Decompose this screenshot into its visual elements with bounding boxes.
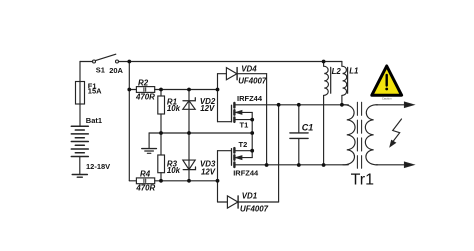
wire battery column top — [79, 62, 81, 127]
svg-text:12V: 12V — [201, 168, 216, 177]
junction gate2 rail / T2 gate column — [216, 179, 220, 183]
junction T2 drain rail / L2 bottom — [322, 163, 326, 167]
junction GND rail / R1-R3 column — [159, 131, 163, 135]
transformer core — [356, 102, 358, 168]
junction T1 source — [250, 118, 254, 122]
junction +V column / R2 left — [127, 88, 131, 92]
inductor L2 — [323, 62, 325, 67]
fuse F1 — [76, 82, 85, 105]
transformer Tr1 secondary — [365, 105, 377, 165]
junction T2 source — [250, 149, 254, 153]
svg-text:C1: C1 — [302, 123, 314, 133]
inductor L1 — [341, 62, 343, 67]
junction gate1 rail / VD2 cathode — [187, 88, 191, 92]
wire top rail — [119, 61, 342, 63]
transistor T1 — [231, 105, 233, 122]
junction T1 drain rail / VD1 cathode column — [277, 103, 281, 107]
junction gate1 rail / R1 top — [159, 88, 163, 92]
wire gate1 rail left — [129, 89, 136, 91]
resistor R2 — [136, 87, 154, 93]
warning triangle — [372, 66, 402, 100]
svg-text:Tr1: Tr1 — [351, 172, 375, 189]
svg-text:L2: L2 — [332, 67, 342, 76]
svg-text:Bat1: Bat1 — [86, 116, 102, 125]
zener VD3 — [188, 133, 190, 181]
switch S1 — [93, 60, 96, 63]
T1 drain rail — [236, 104, 349, 106]
node column T2 gate/VD1 — [217, 151, 219, 202]
capacitor C1 — [298, 105, 300, 132]
diode VD4 — [218, 73, 227, 75]
wire battery to ground — [79, 157, 81, 175]
junction +V rail / S1 branch — [127, 60, 131, 64]
gate2 rail — [129, 180, 136, 182]
svg-text:UF4007: UF4007 — [238, 77, 267, 86]
wire T1 gate stub — [218, 121, 232, 123]
junction GND rail / VD2-VD3 column — [187, 131, 191, 135]
transformer Tr1 primary — [343, 105, 355, 165]
svg-text:R2: R2 — [138, 79, 149, 88]
svg-text:Caution: Caution — [382, 96, 392, 100]
svg-text:L1: L1 — [349, 66, 358, 75]
junction T2 drain rail / VD4 cathode column — [265, 163, 269, 167]
lightning bolt — [393, 119, 402, 142]
diode VD1 — [218, 201, 228, 203]
node column VD4/T1 gate — [217, 74, 219, 122]
svg-text:R4: R4 — [140, 170, 151, 179]
wire gate1 rail — [155, 89, 218, 91]
resistor R3 — [160, 133, 162, 155]
GND rail — [149, 132, 252, 134]
svg-text:UF4007: UF4007 — [240, 205, 269, 214]
ground (mid) — [142, 148, 157, 150]
svg-text:12-18V: 12-18V — [86, 162, 110, 171]
T2 gate stub — [218, 150, 232, 152]
svg-text:S1: S1 — [96, 65, 105, 74]
junction gate1 rail / VD4 anode column — [216, 88, 220, 92]
svg-text:15A: 15A — [88, 87, 102, 96]
battery Bat1 — [71, 126, 88, 156]
wire ground drop — [148, 133, 150, 148]
zener VD2 — [188, 90, 190, 134]
svg-text:20A: 20A — [109, 66, 123, 75]
svg-text:VD1: VD1 — [242, 192, 257, 201]
node column VD1 cathode rise — [278, 105, 280, 202]
junction +V rail / L2 top — [322, 60, 326, 64]
junction gate2 rail / VD3 anode — [187, 179, 191, 183]
svg-text:470R: 470R — [135, 184, 155, 193]
svg-text:T1: T1 — [240, 120, 249, 129]
junction gate2 rail / R3 bottom — [159, 179, 163, 183]
ground (battery) — [72, 174, 87, 176]
wire top rail left — [80, 61, 93, 63]
svg-text:T2: T2 — [239, 140, 248, 149]
junction GND rail / source column — [250, 131, 254, 135]
junction T1 drain rail / L1 bottom — [340, 103, 344, 107]
junction T1 drain rail / C1 top — [297, 103, 301, 107]
svg-text:VD4: VD4 — [241, 65, 257, 74]
svg-text:IRFZ44: IRFZ44 — [237, 94, 263, 103]
wire +V drop column — [128, 62, 130, 181]
wire VD4 cathode drop — [266, 74, 268, 165]
svg-text:IRFZ44: IRFZ44 — [233, 169, 259, 178]
transistor T2 — [231, 149, 233, 166]
svg-text:470R: 470R — [135, 92, 155, 101]
resistor R4 — [136, 178, 154, 184]
wire secondary bottom output — [376, 164, 405, 166]
junction T2 drain rail / C1 bottom — [297, 163, 301, 167]
resistor R1 — [160, 90, 162, 97]
T2 drain rail — [236, 164, 349, 166]
wire secondary top output — [376, 104, 405, 106]
svg-text:10k: 10k — [167, 166, 181, 175]
svg-text:10k: 10k — [167, 104, 181, 113]
svg-text:12V: 12V — [200, 104, 215, 113]
